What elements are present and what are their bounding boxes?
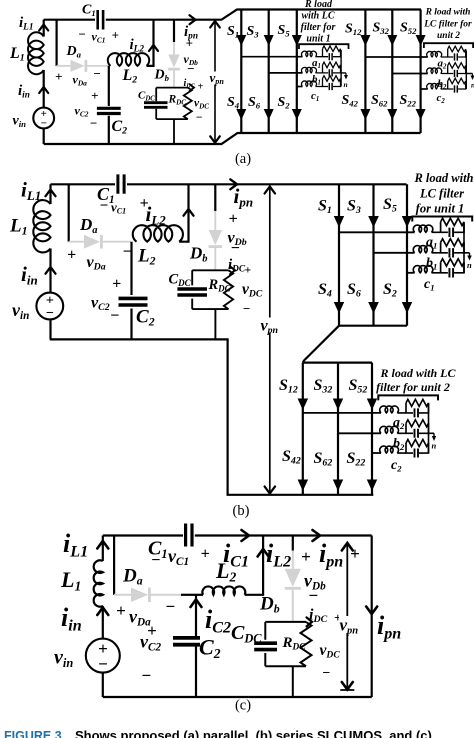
svg-text:S1: S1 [318, 198, 332, 217]
svg-text:S6: S6 [248, 95, 261, 110]
switch column S52/S22 (a) [420, 10, 422, 134]
svg-text:S3: S3 [347, 198, 361, 217]
svg-text:iin: iin [21, 262, 38, 288]
svg-text:FIGURE 3: FIGURE 3 [4, 729, 62, 738]
svg-text:c1: c1 [424, 277, 435, 292]
diode Da (c) [114, 594, 131, 596]
svg-text:filter for: filter for [301, 22, 336, 33]
svg-text:vC1: vC1 [92, 30, 106, 45]
wire snubber box (c) [265, 622, 306, 697]
node v_pn measure (c) [340, 543, 354, 690]
svg-text:R load with LC: R load with LC [379, 366, 456, 380]
svg-text:CDC: CDC [231, 622, 262, 645]
svg-text:iL2: iL2 [130, 37, 145, 55]
switch column S32/S62 (b) [337, 363, 339, 495]
svg-text:L2: L2 [137, 246, 156, 268]
wire phase c2 tap (b) [372, 452, 381, 454]
svg-text:(a): (a) [235, 151, 251, 167]
svg-text:Db: Db [189, 244, 208, 265]
diode Da (a) [57, 65, 71, 67]
switch column S1/S4 (a) [240, 10, 242, 134]
svg-text:unit 1: unit 1 [306, 34, 330, 45]
current arrow i_C2 (c) [191, 600, 202, 608]
wire left branch (b) [49, 184, 51, 204]
svg-text:−: − [46, 306, 54, 321]
svg-text:for unit 1: for unit 1 [416, 202, 465, 216]
load row b2 (a) [427, 63, 467, 77]
svg-text:Da: Da [122, 566, 143, 588]
wire bottom (c) [103, 696, 372, 698]
bracket unit1 (b) [412, 217, 472, 222]
capacitor C2 (a) [97, 108, 121, 113]
svg-text:vC1: vC1 [111, 200, 126, 216]
wire Da anode branch (b) [68, 184, 70, 241]
wire snubber box (b) [192, 270, 228, 339]
svg-text:Db: Db [259, 594, 280, 616]
svg-text:S2: S2 [278, 95, 291, 110]
source v_in (c) [86, 639, 120, 673]
svg-text:S4: S4 [318, 281, 332, 300]
current arrow i_DC (c) [307, 617, 313, 626]
svg-text:+: + [55, 69, 62, 84]
capacitor C2 (c) [173, 638, 200, 645]
svg-text:−: − [78, 27, 86, 42]
svg-text:+: + [201, 546, 210, 563]
wire phase a2 tap (a) [365, 56, 427, 58]
svg-text:iL1: iL1 [19, 15, 34, 33]
svg-text:C1: C1 [82, 3, 96, 18]
svg-text:Da: Da [66, 44, 82, 59]
current arrow i_L2 (a) [149, 45, 158, 51]
svg-text:LC filter: LC filter [419, 187, 464, 201]
wire C2 branch (b) [130, 242, 132, 340]
current arrow i_in (a) [39, 87, 48, 93]
diode Db (c) [292, 536, 294, 551]
svg-text:c1: c1 [311, 90, 319, 103]
svg-text:+: + [301, 547, 311, 566]
svg-text:S1: S1 [227, 24, 239, 39]
current arrow i_pn (b) [230, 179, 237, 189]
svg-text:S52: S52 [349, 377, 368, 396]
svg-text:−: − [110, 308, 120, 325]
source v_in (a) [33, 108, 54, 129]
svg-text:vDC: vDC [242, 281, 263, 300]
wire Da anode branch (a) [55, 20, 57, 66]
svg-text:+: + [112, 276, 121, 293]
svg-text:LC filter for: LC filter for [423, 20, 472, 30]
svg-text:−: − [231, 240, 241, 257]
svg-text:−: − [40, 118, 47, 130]
svg-text:S2: S2 [383, 281, 397, 300]
svg-text:vin: vin [54, 647, 73, 670]
svg-text:iDC: iDC [309, 607, 328, 626]
svg-text:−: − [187, 61, 195, 76]
diode Da (b) [69, 241, 84, 243]
bracket unit2 (a) [424, 43, 473, 48]
svg-text:R load with: R load with [413, 171, 473, 185]
svg-text:+: + [91, 88, 98, 103]
svg-text:S6: S6 [347, 281, 361, 300]
svg-text:RDC: RDC [282, 635, 307, 653]
capacitor C2 (b) [119, 298, 148, 305]
svg-text:Db: Db [154, 68, 170, 83]
wire phase b2 tap (a) [392, 73, 427, 75]
wire phase a1 tap (a) [241, 56, 302, 58]
svg-text:S5: S5 [383, 196, 397, 215]
svg-text:−: − [308, 586, 318, 605]
svg-text:unit 2: unit 2 [437, 31, 460, 41]
svg-text:L1: L1 [9, 45, 25, 64]
svg-text:vDa: vDa [73, 73, 88, 88]
current arrow i_C1 (c) [242, 530, 250, 541]
load row a1 (a) [301, 46, 341, 60]
svg-text:S3: S3 [247, 24, 260, 39]
svg-text:vC2: vC2 [91, 295, 110, 314]
svg-text:(c): (c) [235, 698, 251, 714]
svg-text:+: + [245, 265, 252, 277]
current arrow i_pn top (c) [313, 530, 321, 541]
inductor L2 (c) [202, 586, 245, 594]
current arrow i_pn right (c) [366, 607, 377, 615]
svg-text:iin: iin [61, 603, 82, 634]
svg-text:c2: c2 [391, 458, 402, 473]
svg-text:iin: iin [18, 83, 30, 101]
load row c1 (a) [301, 76, 341, 90]
wire v_in branch (a) [43, 70, 45, 144]
switch column S1/S4 (b) [338, 184, 340, 325]
wire v_in branch (c) [102, 606, 104, 697]
inductor L1 (c) [94, 560, 103, 606]
svg-text:R load: R load [304, 0, 333, 10]
wire right rail (c) [371, 536, 373, 698]
svg-text:vDa: vDa [87, 254, 106, 273]
switch column S12/S42 (a) [364, 10, 366, 134]
wire phase c1 tap (a) [297, 86, 303, 88]
svg-text:S12: S12 [279, 377, 298, 396]
svg-text:vDC: vDC [194, 98, 209, 111]
svg-text:−: − [90, 116, 98, 131]
svg-text:iL2: iL2 [146, 202, 167, 228]
svg-text:R load with: R load with [425, 8, 471, 18]
svg-text:c2: c2 [437, 92, 446, 105]
wire bottom rail unit1 (b) [339, 325, 407, 327]
wire top rail (a) [44, 10, 421, 20]
svg-text:−: − [100, 198, 109, 214]
wire phase a2 tap (b) [303, 412, 381, 414]
wire phase b1 tap (b) [374, 252, 415, 254]
current arrow i_pn (a) [190, 15, 196, 24]
svg-text:n: n [467, 260, 472, 270]
switch column S5/S2 (b) [406, 184, 408, 325]
node v_pn measure (a) [214, 21, 216, 143]
svg-text:ipn: ipn [184, 24, 198, 42]
switch column S3/S6 (b) [372, 184, 374, 325]
svg-text:C2: C2 [136, 307, 155, 329]
load row c1 (b) [413, 259, 465, 278]
svg-text:S62: S62 [314, 450, 333, 469]
capacitor C1 (a) [98, 10, 103, 30]
svg-text:n: n [344, 80, 348, 89]
current arrow i_L2 (c) [258, 549, 269, 557]
svg-text:−: − [196, 112, 203, 124]
svg-text:iL2: iL2 [266, 539, 291, 570]
wire diagonal unit1-unit2 (b) [303, 326, 339, 363]
source v_in (b) [36, 293, 63, 320]
svg-text:ipn: ipn [319, 539, 343, 570]
svg-text:iL1: iL1 [21, 178, 41, 204]
svg-text:−: − [98, 655, 108, 674]
wire C2 branch (a) [108, 66, 110, 144]
svg-text:ipn: ipn [234, 184, 254, 210]
capacitor C1 (b) [118, 174, 124, 193]
current arrow i_in (b) [46, 267, 56, 274]
svg-text:+: + [116, 601, 126, 620]
svg-text:S32: S32 [373, 21, 390, 36]
svg-text:n: n [432, 441, 437, 451]
node v_pn measure (b) [269, 187, 271, 494]
svg-text:−: − [243, 301, 251, 316]
load row a2 (a) [427, 46, 467, 60]
svg-text:L1: L1 [60, 567, 81, 594]
current arrow i_in (c) [97, 608, 108, 616]
inductor L2 (b) [133, 225, 183, 241]
wire Da anode branch (c) [113, 536, 115, 595]
wire phase b2 tap (b) [338, 432, 381, 434]
node junction C2/L2 (c) [195, 595, 197, 638]
svg-text:S62: S62 [371, 93, 388, 108]
svg-text:C2: C2 [112, 118, 128, 137]
neutral bus n unit1 (a) [341, 50, 346, 87]
current arrow i_L1 (a) [39, 25, 48, 31]
wire top rail (b) [51, 183, 407, 185]
wire phase b1 tap (a) [269, 72, 303, 74]
load row b1 (a) [301, 62, 341, 76]
svg-text:vC1: vC1 [168, 546, 189, 568]
current arrow i_L1 (b) [46, 190, 56, 197]
svg-text:CDC: CDC [138, 90, 155, 103]
svg-text:C2: C2 [199, 635, 221, 662]
svg-text:+: + [147, 621, 157, 640]
wire top rail (c) [103, 534, 372, 536]
svg-text:S32: S32 [314, 377, 333, 396]
inductor L1 (a) [28, 32, 44, 74]
svg-text:−: − [322, 666, 330, 681]
svg-text:ipn: ipn [377, 611, 401, 642]
svg-text:vC2: vC2 [75, 104, 89, 119]
svg-text:S12: S12 [345, 22, 362, 37]
capacitor CDC (b) [177, 289, 207, 295]
svg-text:−: − [93, 66, 101, 81]
svg-text:Da: Da [79, 215, 98, 236]
current arrow i_DC (b) [230, 266, 235, 274]
capacitor CDC (c) [254, 643, 277, 649]
svg-text:with LC: with LC [301, 11, 334, 22]
svg-text:+: + [229, 211, 238, 228]
svg-text:S42: S42 [342, 93, 359, 108]
svg-text:iC2: iC2 [205, 605, 231, 636]
svg-text:S42: S42 [282, 448, 301, 467]
svg-text:−: − [151, 552, 161, 569]
wire bottom (a) [44, 133, 421, 144]
load row c2 (b) [380, 440, 430, 458]
diode Db (b) [214, 184, 216, 211]
neutral bus n unit2 (b) [429, 405, 435, 454]
svg-text:iDC: iDC [184, 78, 196, 90]
inductor L2 (a) [108, 53, 149, 66]
switch column S5/S2 (a) [296, 10, 298, 134]
load row a2 (b) [380, 399, 430, 417]
wire phase a1 tap (b) [339, 231, 415, 233]
svg-text:L2: L2 [122, 67, 138, 86]
svg-text:S22: S22 [400, 93, 417, 108]
current arrow i_L1 (c) [97, 541, 108, 549]
wire bottom (b) [50, 339, 374, 494]
resistor RDC (b) [224, 270, 233, 309]
svg-text:+: + [67, 247, 76, 264]
svg-text:Shows proposed (a) parallel, (: Shows proposed (a) parallel, (b) series … [75, 728, 432, 738]
wire v_in branch (b) [49, 249, 51, 340]
resistor RDC (c) [301, 622, 312, 666]
svg-text:CDC: CDC [169, 272, 192, 289]
wire left branch (a) [43, 20, 45, 37]
svg-text:−: − [141, 666, 151, 685]
svg-text:iL1: iL1 [63, 529, 88, 560]
svg-text:filter for unit 2: filter for unit 2 [376, 380, 450, 394]
capacitor C1 (c) [186, 524, 192, 547]
svg-text:+: + [198, 82, 204, 93]
resistor RDC (a) [184, 88, 192, 120]
current arrow i_DC (a) [190, 84, 195, 91]
bracket unit2 (b) [378, 395, 438, 400]
svg-text:+: + [112, 28, 119, 43]
neutral bus n unit2 (a) [466, 51, 472, 90]
svg-text:RDC: RDC [208, 277, 232, 294]
svg-text:iC1: iC1 [223, 539, 249, 570]
svg-text:−: − [165, 597, 175, 616]
switch column S52/S22 (b) [371, 363, 373, 495]
svg-text:L1: L1 [9, 216, 28, 238]
load row c2 (a) [427, 78, 467, 92]
switch column S3/S6 (a) [268, 10, 270, 134]
wire phase c1 tap (b) [407, 272, 415, 274]
bracket unit1 (a) [299, 44, 349, 49]
switch column S32/S62 (a) [391, 10, 393, 134]
svg-text:iDC: iDC [228, 257, 246, 275]
svg-text:S22: S22 [347, 450, 366, 469]
svg-text:S52: S52 [400, 21, 417, 36]
svg-text:vDC: vDC [320, 642, 341, 661]
capacitor CDC (a) [144, 103, 168, 108]
load row b2 (b) [380, 420, 430, 438]
load row b1 (b) [413, 239, 465, 258]
neutral bus n unit1 (b) [464, 224, 470, 273]
current arrow i_L2 (b) [184, 209, 194, 216]
diode Db (a) [173, 20, 175, 42]
svg-text:(b): (b) [233, 503, 250, 519]
load row a1 (b) [413, 218, 465, 237]
wire top rail unit2 (b) [303, 362, 372, 364]
svg-text:S5: S5 [278, 23, 291, 38]
inductor L1 (b) [33, 200, 50, 252]
svg-text:S4: S4 [227, 95, 240, 110]
switch column S12/S42 (b) [302, 363, 304, 495]
wire left branch (c) [102, 536, 104, 562]
svg-text:vin: vin [12, 300, 29, 322]
svg-text:vin: vin [13, 114, 27, 129]
wire snubber box (a) [156, 88, 188, 144]
wire phase c2 tap (a) [421, 88, 428, 90]
